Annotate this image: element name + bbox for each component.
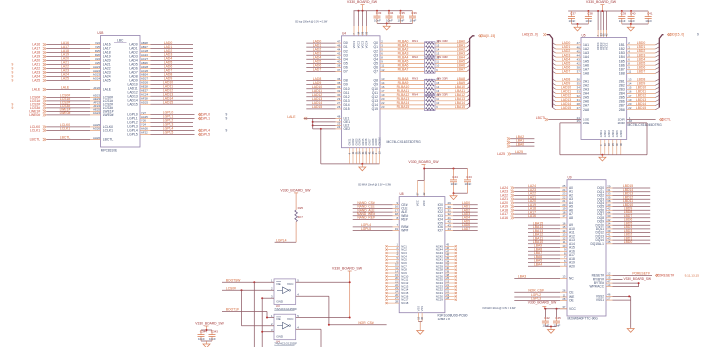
svg-text:OE: OE [276,282,280,286]
svg-text:AF22: AF22 [141,131,148,135]
resistor R25 4K7 pull-up [280,189,311,243]
bus LBD[15..0] out of U5 [659,33,699,108]
ground (U4 caps) [383,26,390,30]
svg-text:9: 9 [12,79,14,83]
svg-text:10nF: 10nF [628,19,635,23]
svg-text:U1B: U1B [97,31,103,35]
node page refs 9 (LCS2-LCS3) [12,103,14,111]
svg-text:LBD[15..0]: LBD[15..0] [669,33,685,37]
svg-text:13: 13 [378,151,381,154]
wire U8 IO4 LAD4 [438,216,478,222]
wire LAD4 to U4 D4 [306,56,348,62]
wire U5 2B3 LBD10 [619,86,660,92]
svg-text:V330_BOARD_SW: V330_BOARD_SW [624,277,651,281]
resistor network RN3 [412,76,449,94]
wire U4 Q6 to RN [374,64,425,70]
wire LAD3 [129,53,193,59]
wire LAD15 [127,101,193,107]
svg-text:LALE: LALE [61,86,70,90]
svg-text:M29W640FTTC-90G: M29W640FTTC-90G [568,316,599,320]
resistor RN2B 33R [426,60,470,65]
wire LAD9 to U4 D9 [306,81,348,87]
svg-text:WP#/ACC: WP#/ACC [589,285,604,289]
wire LBA2 [507,135,535,140]
chip U5 MC74LCX16245 transceiver [581,33,662,139]
svg-text:VSS1: VSS1 [596,298,604,302]
chip U8 K9F1G08U0D NAND flash [399,192,467,321]
wire U9 DQ14 LBD1 [596,236,651,242]
resistor RN1D 33R [426,52,470,57]
wire LAD0 to U5 1A1 [553,41,590,47]
svg-text:26: 26 [362,31,365,34]
wire LGPL0 [127,111,227,117]
wire LAD9 [129,77,193,83]
svg-text:128M x 8: 128M x 8 [438,317,451,321]
svg-text:GND10: GND10 [378,137,381,146]
svg-text:LAD15: LAD15 [312,105,322,109]
wire LA19 [32,53,110,59]
svg-text:LWE0#: LWE0# [60,111,71,115]
svg-text:11: 11 [436,60,439,64]
svg-text:D7: D7 [344,70,348,74]
wire LGPL2 to U9 WE [514,293,575,299]
svg-text:C34: C34 [388,11,394,15]
wire LBA5 to U9 A19 [528,259,575,265]
resistor RN3C 33R [426,85,470,90]
ground (U5) [599,154,606,161]
wire U4 Q2 to RN [374,47,425,53]
svg-text:7: 7 [353,33,356,35]
svg-text:LAD7: LAD7 [462,227,470,231]
svg-text:C36: C36 [411,11,417,15]
wire LAD2 to U4 D2 [306,47,348,53]
wire LAD14 to U5 2A7 [553,102,590,108]
wire LA24 [32,73,110,79]
svg-text:WP#: WP# [401,229,408,233]
svg-text:LBCTL: LBCTL [60,136,71,140]
wire LCLK0 [30,123,113,129]
svg-text:LCS0#: LCS0# [226,286,236,290]
wire U9 WP#/ACC [589,283,638,289]
svg-text:I33 MAX 10mA @ 3.3V = 0.3W: I33 MAX 10mA @ 3.3V = 0.3W [358,183,392,186]
wire LAD15 to U5 2A8 [553,106,590,112]
wire LAD12 to U5 2A5 [553,94,590,100]
svg-text:4: 4 [600,144,603,146]
wire U9 DQ9 LBD6 [597,218,650,224]
svg-text:LWE0#: LWE0# [29,113,40,117]
wire LAD4 to U5 1A5 [553,57,590,63]
wire U4 Q7 to RN [374,68,425,74]
wire LA21 [32,61,110,67]
wire LBA0 [507,142,535,147]
svg-text:VSS: VSS [416,306,420,311]
wire U4 Q9 to RN [374,81,425,87]
svg-text:GND1: GND1 [600,130,603,138]
wire U8 NC pins left [385,243,408,305]
svg-text:44: 44 [448,227,452,231]
svg-text:MPC8310E: MPC8310E [101,148,117,152]
wire U4 VCC [296,314,351,319]
wire U5 1B3 LBD2 [619,49,660,55]
ground (U9) [627,329,634,333]
svg-text:VCC: VCC [569,307,577,311]
svg-text:C343: C343 [211,330,219,334]
wire U3 GND [261,295,274,347]
svg-text:10nF: 10nF [465,182,472,186]
wire LCS2# [30,101,113,107]
svg-text:RN2: RN2 [412,55,418,59]
wire VCC bus (U4) [354,10,413,12]
svg-text:C38: C38 [587,12,593,16]
svg-text:RLBA15: RLBA15 [397,105,410,109]
wire LA20 to U9 A4 [500,199,573,205]
svg-text:C42: C42 [544,316,550,320]
wire U5 1B7 LBD6 [619,66,660,72]
chip U4 MC74LCX16373 latch [342,32,422,148]
svg-text:10nF: 10nF [569,19,576,23]
wire LBA3 to U9 NC [514,275,574,281]
svg-text:I33 MAX 10mA @ 3.3V = 0.3W: I33 MAX 10mA @ 3.3V = 0.3W [483,307,517,310]
svg-text:OE: OE [276,317,280,321]
wire U9 DQ2 LBD13 [597,192,650,198]
wire U8 IO3 LAD3 [438,212,478,218]
svg-text:13: 13 [417,316,420,319]
wire U9 DQ3 LBD12 [597,195,650,201]
resistor RN2A 33R [426,56,470,61]
wire U4 Q15 to RN [372,105,425,111]
wire U9 VCC [544,305,576,311]
wire LBA6 to U9 A18 [528,255,575,261]
resistor RN2D 33R [426,68,470,73]
chip U1B MPC8310E local bus controller [97,31,140,152]
wire LAD11 to U4 D11 [306,89,349,95]
svg-text:46: 46 [620,143,623,146]
svg-text:LGPL5: LGPL5 [163,131,174,135]
wire LA23 to U9 A1 [500,188,573,194]
wire U9 DQ5 LBD10 [597,203,650,209]
svg-text:NC29: NC29 [436,298,444,302]
svg-text:U4: U4 [342,32,346,36]
wire LAD15 to U4 D15 [306,105,349,111]
wire U5 2B5 LBD12 [619,94,660,100]
svg-text:LALE: LALE [32,88,41,92]
wire LBA14 to U9 A10 [528,225,575,231]
svg-text:17: 17 [562,214,566,218]
svg-text:Q7: Q7 [374,70,379,74]
svg-text:RE#: RE# [401,218,408,222]
resistor RN4B 33R [426,97,470,102]
power flag V330_BOARD_SW (U5 caps) [586,0,617,11]
svg-text:9: 9 [12,106,14,110]
wire U9 DQ12 LBD3 [596,229,651,235]
wire C344 C343 bus [201,329,212,331]
svg-text:RN 33R: RN 33R [437,93,449,97]
wire LAD1 to U5 1A2 [553,45,590,51]
svg-text:C35: C35 [399,11,405,15]
svg-text:NC: NC [569,277,574,281]
ground (U9 caps) [548,330,555,334]
svg-text:GND6: GND6 [620,130,623,138]
wire LA20 [32,57,110,63]
svg-text:VCC: VCC [287,317,294,321]
svg-text:LA16: LA16 [528,214,536,218]
svg-text:37: 37 [577,70,581,74]
wire U9 DQ10 LBD5 [596,221,651,227]
note I33 typ [295,20,328,23]
wire U5 2B4 LBD11 [619,90,660,96]
svg-text:C44: C44 [452,175,458,179]
capacitor C36 10nF [409,11,417,24]
svg-text:V330_BOARD_SW: V330_BOARD_SW [408,160,439,164]
svg-text:D15: D15 [344,107,350,111]
resistor RN1C 33R [426,47,470,52]
wire LAD11 to U5 2A4 [553,90,590,96]
svg-text:LCLK1: LCLK1 [103,129,113,133]
svg-text:42: 42 [605,33,608,36]
resistor RN4C 33R [426,101,470,106]
svg-text:1B8: 1B8 [619,72,625,76]
svg-text:C41: C41 [647,12,653,16]
svg-text:V330_BOARD_SW: V330_BOARD_SW [528,301,557,305]
svg-text:2B8: 2B8 [619,108,625,112]
svg-text:MC74LCX16373DTRG: MC74LCX16373DTRG [387,140,422,144]
svg-text:RN 33R: RN 33R [437,76,449,80]
capacitor C42 10nF [542,309,550,328]
svg-text:GND5: GND5 [616,130,619,138]
wire U5 2B1 LBD8 [619,77,660,83]
svg-text:74VHC1G125DF: 74VHC1G125DF [274,307,297,311]
capacitor C38 10nF [585,11,593,24]
wire LBA11 to U9 A13 [528,236,575,242]
svg-text:GND4: GND4 [612,130,615,138]
wire LAD13 to U5 2A6 [553,98,590,104]
svg-text:VCC1: VCC1 [604,42,608,50]
svg-text:RN4: RN4 [412,93,418,97]
wire U4 Q5 to RN [374,60,425,66]
wire U4 Q12 to RN [372,93,425,99]
svg-text:GND2: GND2 [604,130,607,138]
wire LAD1 to U4 D1 [306,43,348,49]
svg-text:LWE0#: LWE0# [103,113,114,117]
power flag V330_BOARD_SW (U9) [528,301,557,309]
svg-text:LBA3: LBA3 [518,275,526,279]
power flag V330_BOARD_SW (C344) [195,322,224,330]
wire LAD5 to U5 1A6 [553,62,590,68]
wire LALE [32,86,112,92]
svg-text:74VHC1G125DF: 74VHC1G125DF [274,342,297,346]
svg-text:LAD[15..0]: LAD[15..0] [522,32,538,36]
svg-text:LAD7: LAD7 [562,70,571,74]
svg-text:24: 24 [337,125,341,129]
svg-text:V330_BOARD_SW: V330_BOARD_SW [195,322,224,326]
svg-text:40: 40 [616,143,619,146]
wire U9 DQ15A-1 LBD0 [590,240,650,246]
svg-text:U5: U5 [582,33,586,37]
svg-text:LGPL4: LGPL4 [276,238,287,242]
svg-text:10nF: 10nF [645,19,652,23]
chip U9 M29W640 NOR flash [567,175,606,320]
wire LAD8 to U5 2A1 [553,77,590,83]
wire LBA7 to U9 A17 [528,251,575,257]
svg-text:IO7: IO7 [438,229,443,233]
wire LGPL3 to U9 OE [514,297,574,303]
svg-text:LAD15: LAD15 [127,102,137,106]
svg-text:LBCTL: LBCTL [536,116,546,120]
wire LCS0# [30,94,113,100]
wire LWE1# [29,108,113,114]
wire LA24 to U9 A0 [500,184,573,190]
svg-text:PORESET#: PORESET# [632,271,650,275]
wire U4 Q4 to RN [374,56,425,62]
wire LA19 to U9 A5 [500,203,573,209]
wire LCS1# [30,97,113,103]
svg-text:PORESET#: PORESET# [657,274,675,278]
svg-text:DQ15A-1: DQ15A-1 [590,242,604,246]
wire LBCTL [30,136,114,142]
wire caps ground bus left (U5) [572,23,589,27]
wire BOOT1# [222,307,274,318]
svg-text:RLBA7: RLBA7 [398,68,409,72]
capacitor C44 10nF [450,169,458,194]
wire U5 2DIR to ground loop [627,123,647,155]
svg-text:26: 26 [337,105,341,109]
wire U4 OE2 [313,125,350,131]
wire LGPL5 [353,227,409,233]
resistor RN1A 33R [426,39,470,44]
svg-text:RN3: RN3 [412,76,418,80]
wire U9 VSS [596,293,631,329]
wire VCC pins (U5) [596,11,608,50]
resistor RN2C 33R [426,64,470,69]
capacitor C40 10nF [628,11,636,24]
svg-text:2OE: 2OE [583,121,589,125]
svg-text:GND3: GND3 [608,130,611,138]
svg-text:LA25: LA25 [103,79,111,83]
capacitor C43 10nF [464,169,472,194]
svg-text:RN 33R: RN 33R [437,55,449,59]
wire U4 Q3 to RN [374,52,425,58]
node page refs 9 (LA21-LA24) [12,63,14,83]
wire VCC net (U8) [416,168,468,207]
wire U8 IO5 LAD5 [438,219,478,225]
wire LAD14 to U4 D14 [306,101,349,107]
wire LAD1 [129,45,193,51]
svg-text:LA25: LA25 [515,150,523,154]
wire LA21 to U9 A3 [500,195,573,201]
svg-text:LBCTL: LBCTL [30,138,41,142]
wire LA25 [497,150,527,156]
wire U4 output [296,326,321,347]
svg-text:2DIR: 2DIR [618,121,626,125]
wire LAD4 [129,57,193,63]
wire U5 DIR LBCTL [618,116,671,125]
svg-text:C33: C33 [376,11,382,15]
svg-text:37: 37 [417,192,420,195]
resistor network RN2 [412,55,449,73]
svg-text:LAD15: LAD15 [163,101,173,105]
svg-text:10nF: 10nF [410,18,417,22]
wire BOOTSW [222,278,274,347]
wire LCS0# [222,286,274,326]
buffer U3 74VHC1G125 [274,279,297,311]
svg-text:U8: U8 [400,192,404,196]
resistor network RN4 [412,93,449,111]
svg-text:26: 26 [562,289,566,293]
wire caps ground bus right (U5) [622,23,648,27]
wire U5 GND pins [560,130,647,155]
wire LA16 [32,41,110,47]
wire LBA10 to U9 A14 [528,240,575,246]
ground (U4) [359,163,366,171]
svg-text:LBD0: LBD0 [624,240,633,244]
wire LAD5 [129,61,193,67]
wire LA18 [32,49,110,55]
wire LAD12 [127,89,193,95]
wire NAND_WE# [353,212,409,218]
wire LAD13 [127,93,193,99]
svg-text:OE2: OE2 [344,127,351,131]
svg-text:V330_BOARD_SW: V330_BOARD_SW [332,267,363,271]
svg-text:LA25: LA25 [32,79,40,83]
wire U4 Q1 to RN [374,43,425,49]
wire U9 RY/BY# [593,276,651,282]
wire U4 LE1 [313,115,350,121]
wire LBA4 to U9 A20 [528,262,575,268]
svg-text:LCLK1: LCLK1 [60,127,70,131]
wire LA16 to U9 A8 [500,214,573,220]
svg-text:OE: OE [569,299,575,303]
svg-text:9: 9 [697,33,699,37]
svg-text:VCC4: VCC4 [365,40,369,48]
svg-text:RN 33R: RN 33R [437,39,449,43]
wire U5 2B7 LBD14 [619,102,660,108]
svg-text:9: 9 [226,117,228,121]
svg-text:LAD15: LAD15 [561,106,571,110]
svg-text:LGPL1: LGPL1 [200,117,211,121]
svg-text:LGPL5: LGPL5 [127,133,138,137]
svg-text:GND: GND [276,299,284,303]
wire U9 DQ6 LBD9 [597,207,650,213]
wire LA17 [32,45,110,51]
wire LAD2 [129,49,193,55]
svg-text:10nF: 10nF [619,19,626,23]
wire LBA12 to U9 A12 [528,233,575,239]
svg-text:RN1: RN1 [412,39,418,43]
svg-text:NOR_CS#: NOR_CS# [528,288,544,292]
wire LGPL4 [353,223,409,229]
wire U9 BYTE# [594,279,640,286]
wire LAD13 to U4 D13 [306,97,349,103]
capacitor C39 10nF [618,11,626,24]
svg-text:LBA[0..15]: LBA[0..15] [480,34,495,38]
svg-text:A20: A20 [569,264,575,268]
svg-text:37: 37 [337,68,341,72]
svg-text:CE: CE [569,290,574,294]
wire U5 2B6 LBD13 [619,98,660,104]
wire LCLK1 [30,127,113,133]
svg-text:NC18: NC18 [401,301,409,305]
capacitor C35 10nF [397,11,405,24]
wire U8 IO6 LAD6 [438,223,478,229]
wire LGPL1 [127,115,227,121]
wire LGPL4 (R25) [275,238,297,242]
capacitor C33 10nF [374,11,382,24]
wire U8 IO7 LAD7 [438,227,478,233]
wire VCC pins (U4) [352,11,369,49]
wire LAD6 [129,65,193,71]
svg-text:AD25: AD25 [141,101,148,105]
capacitor C45 10nF [553,309,561,328]
